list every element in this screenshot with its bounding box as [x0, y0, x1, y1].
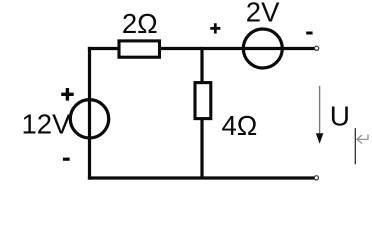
minus sign of V1: [63, 158, 70, 161]
voltage source V2 2V (circle, top right): [243, 29, 282, 68]
wire: left vertical branch (through 12V source): [88, 47, 91, 180]
text cursor bar (editor artifact): [354, 128, 356, 164]
wire: top horizontal right segment (through 2V source to right terminal): [160, 47, 315, 50]
terminal (open circle) top right: [315, 46, 319, 50]
plus sign of V2: [210, 23, 220, 33]
wire: bottom horizontal: [88, 176, 315, 179]
plus sign of V1: [61, 88, 73, 101]
wire: middle vertical branch: [200, 47, 203, 178]
tab formatting mark (gray left arrow with stub): [357, 134, 368, 143]
resistor R1 2Ω (top, horizontal): [119, 41, 160, 57]
resistor R2 4Ω (middle, vertical): [195, 83, 211, 119]
svg-text:2Ω: 2Ω: [122, 8, 158, 39]
voltage source V1 12V (circle, left branch): [70, 100, 108, 138]
svg-text:2V: 2V: [246, 0, 280, 28]
svg-text:4Ω: 4Ω: [222, 110, 258, 141]
svg-text:U: U: [330, 101, 350, 132]
minus sign of V2: [306, 32, 312, 35]
arrow U (voltage arrow, pointing down): [319, 86, 321, 135]
svg-text:12V: 12V: [22, 109, 72, 140]
wire: top horizontal left segment: [88, 47, 119, 50]
terminal (open circle) bottom right: [314, 176, 318, 180]
